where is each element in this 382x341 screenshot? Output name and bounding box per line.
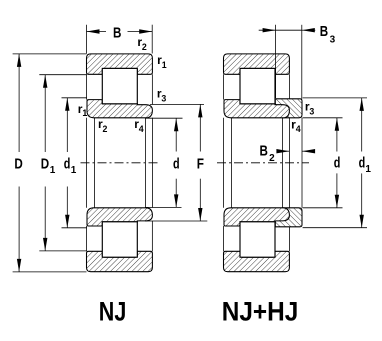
outer ring top half (NJ bearing) (87, 54, 153, 74)
dimension d right line with arrows (335, 118, 339, 208)
bearing face lines between rings (NJ+HJ bearing) (224, 74, 290, 251)
svg-text:D: D (41, 157, 49, 173)
outer ring bottom half (NJ bearing) (87, 251, 153, 271)
svg-text:4: 4 (296, 124, 301, 134)
dimension B3 line with arrows (259, 28, 316, 32)
svg-text:2: 2 (103, 124, 108, 134)
svg-text:1: 1 (71, 165, 77, 176)
svg-text:d: d (334, 156, 341, 172)
dimension d1 left line with arrows (65, 98, 69, 228)
svg-text:1: 1 (162, 60, 167, 70)
dimension B2 line with arrows (276, 149, 315, 153)
svg-text:d: d (359, 156, 366, 172)
dimension d1 right extension lines (303, 98, 367, 228)
inner ring top half with left flange (NJ+HJ bearing) (224, 100, 289, 118)
svg-text:D: D (14, 157, 22, 173)
dimension B3 extension lines (276, 25, 302, 99)
dimension F line with arrows (198, 104, 202, 221)
dimension F extension lines (145, 104, 207, 221)
dimension d left extension lines (145, 118, 183, 207)
inner ring bottom half with left flange (NJ+HJ bearing) (224, 208, 289, 226)
bore silhouette lines (NJ+HJ bearing) (224, 118, 303, 208)
inner ring top half with left flange (NJ bearing) (87, 100, 152, 118)
axis centerline (NJ+HJ bearing) (217, 162, 309, 164)
HJ angle ring bottom half (275, 208, 302, 227)
svg-text:F: F (197, 156, 204, 172)
svg-text:NJ: NJ (99, 297, 127, 327)
svg-text:1: 1 (365, 164, 371, 175)
bearing face lines between rings (NJ bearing) (87, 74, 153, 251)
dimension D1 line with arrows (43, 75, 47, 251)
HJ angle ring top half (275, 99, 302, 118)
svg-text:2: 2 (142, 42, 147, 52)
svg-text:B: B (320, 23, 329, 40)
dimension B line with arrows (87, 29, 153, 33)
svg-text:4: 4 (139, 124, 144, 134)
svg-text:1: 1 (82, 108, 87, 118)
inner ring bottom half with left flange (NJ bearing) (87, 208, 152, 226)
dimension d left line with arrows (174, 118, 178, 207)
cylindrical roller top (NJ bearing) (102, 68, 137, 103)
cylindrical roller bottom (NJ bearing) (102, 222, 137, 257)
dimension B extension lines (87, 25, 153, 54)
cylindrical roller bottom (NJ+HJ bearing) (240, 222, 275, 257)
bore silhouette lines (NJ bearing) (87, 118, 153, 208)
svg-text:3: 3 (309, 106, 314, 116)
svg-text:2: 2 (269, 153, 275, 164)
svg-text:d: d (64, 157, 71, 173)
svg-text:d: d (173, 156, 180, 172)
dimension d right extension lines (303, 118, 343, 208)
dimension d1 right line with arrows (360, 98, 364, 228)
dimension D extension lines (13, 54, 87, 272)
svg-text:NJ+HJ: NJ+HJ (222, 297, 298, 327)
svg-text:3: 3 (330, 35, 336, 46)
svg-text:B: B (260, 143, 269, 160)
dimension d1 left extension lines (62, 98, 88, 228)
svg-text:B: B (113, 24, 122, 41)
svg-text:3: 3 (161, 93, 166, 103)
dimension D1 extension lines (39, 75, 86, 251)
dimension D line with arrows (17, 54, 21, 272)
outer ring top half (NJ+HJ bearing) (224, 54, 290, 74)
outer ring bottom half (NJ+HJ bearing) (224, 251, 290, 271)
axis centerline (NJ bearing) (81, 162, 160, 164)
svg-text:1: 1 (50, 165, 56, 176)
cylindrical roller top (NJ+HJ bearing) (240, 68, 275, 103)
